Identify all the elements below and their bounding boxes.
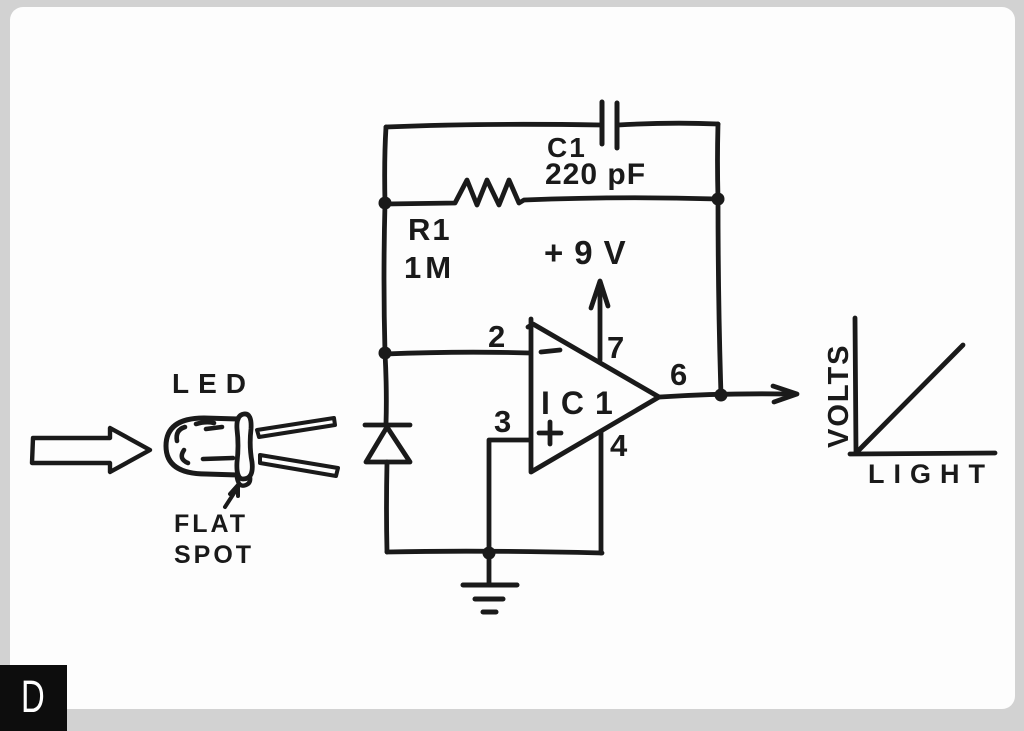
svg-text:LIGHT: LIGHT xyxy=(868,459,994,489)
svg-text:IC1: IC1 xyxy=(541,385,624,421)
svg-text:7: 7 xyxy=(607,330,624,365)
svg-text:220 pF: 220 pF xyxy=(545,158,646,191)
svg-text:D: D xyxy=(21,672,45,722)
svg-text:SPOT: SPOT xyxy=(174,541,254,569)
svg-text:6: 6 xyxy=(670,357,687,392)
svg-text:1M: 1M xyxy=(404,250,455,285)
svg-text:2: 2 xyxy=(488,319,505,354)
svg-text:VOLTS: VOLTS xyxy=(823,343,855,448)
svg-text:FLAT: FLAT xyxy=(174,510,248,538)
svg-text:3: 3 xyxy=(494,404,511,439)
svg-text:LED: LED xyxy=(172,368,255,399)
svg-text:R1: R1 xyxy=(408,212,452,247)
svg-text:+9V: +9V xyxy=(544,234,637,271)
svg-text:4: 4 xyxy=(610,428,628,463)
